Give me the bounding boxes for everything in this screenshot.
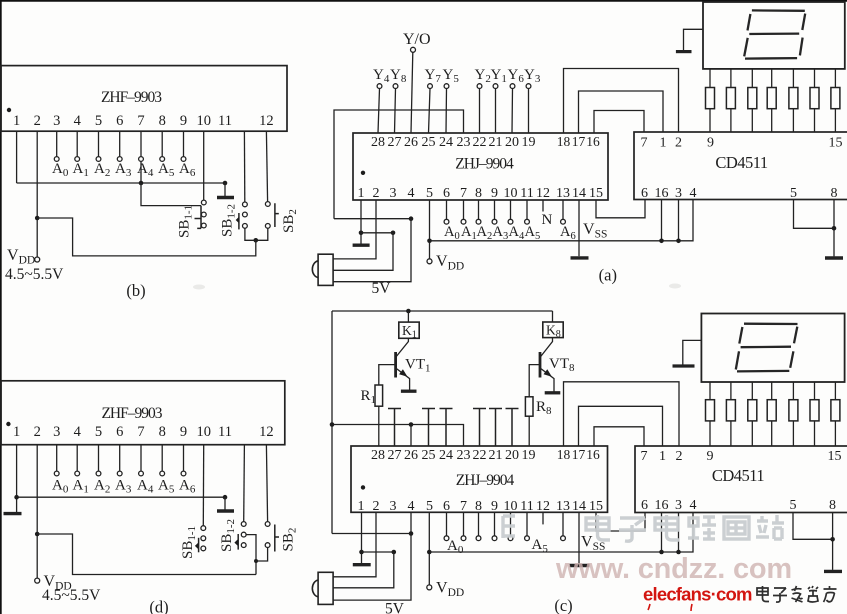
svg-text:5V: 5V: [372, 280, 392, 297]
7-seg digit 8 (c): [736, 324, 798, 372]
svg-text:Y7: Y7: [425, 67, 442, 85]
svg-text:A0: A0: [52, 478, 69, 496]
svg-text:5: 5: [790, 186, 797, 201]
svg-text:ZHJ–9904: ZHJ–9904: [455, 156, 514, 173]
svg-text:5: 5: [426, 499, 433, 514]
svg-text:1: 1: [13, 113, 20, 129]
terminal VDD (c): [427, 585, 432, 590]
svg-text:1: 1: [358, 186, 365, 201]
bus wire horizontal (d): [17, 496, 225, 498]
relay K8 body: [543, 322, 563, 338]
svg-text:16: 16: [655, 498, 669, 513]
svg-text:20: 20: [505, 135, 519, 150]
wire ZHJ pin16 to CD pin7 (c): [594, 427, 644, 446]
page border top: [0, 0, 847, 2]
CD4511 bottom pin labels (c): [641, 498, 836, 513]
svg-text:1: 1: [659, 449, 666, 464]
wire pin3 to IR receiver (c): [333, 552, 394, 588]
wire CD pin8 to ground (a): [833, 200, 835, 257]
svg-text:1: 1: [13, 424, 20, 440]
wires display to resistors (c): [710, 382, 835, 400]
svg-text:13: 13: [556, 499, 570, 514]
svg-text:1: 1: [358, 499, 365, 514]
display ground bar (a): [676, 50, 692, 53]
svg-text:SB1-2: SB1-2: [219, 519, 237, 552]
IC ZHF-9903 (d) body: [1, 381, 285, 445]
VDD rail to CD4511 pin4 (a): [430, 200, 694, 241]
svg-text:4: 4: [74, 424, 82, 440]
IC CD4511 (a) body: [634, 132, 847, 200]
svg-text:8: 8: [475, 186, 482, 201]
wire R8 to pin 19 (c): [528, 416, 530, 446]
svg-text:6: 6: [116, 424, 123, 440]
svg-text:ZHF–9903: ZHF–9903: [101, 89, 162, 106]
svg-text:20: 20: [505, 448, 519, 463]
IC ZHF-9903 (b) body: [1, 66, 287, 132]
bottom pin labels 1-15 (c): [358, 499, 604, 514]
wire pin1 to ground (a): [360, 200, 362, 244]
svg-text:9: 9: [707, 136, 714, 151]
svg-text:R8: R8: [536, 399, 552, 417]
ground bar pin1 (c): [353, 563, 371, 566]
svg-text:ZHF–9903: ZHF–9903: [101, 405, 162, 422]
labels A0-A6 (b): [52, 161, 196, 179]
switch SB1-1 contacts (d): [201, 526, 206, 551]
svg-text:7: 7: [137, 113, 144, 129]
svg-text:8: 8: [829, 498, 836, 513]
svg-text:21: 21: [489, 135, 503, 150]
terminal VDD (a): [427, 259, 432, 264]
wire VT8 base to R8: [529, 365, 540, 397]
svg-text:4: 4: [690, 498, 697, 513]
wire pin12 stub (a): [542, 200, 544, 212]
node K1 tap on rail (c): [406, 309, 411, 314]
wire stub to SB1-2 (d): [243, 445, 246, 522]
wire pin2 to IR receiver (c): [333, 512, 376, 577]
wires Y terminals to pins 28 27 25 24 22 21 20 19: [378, 89, 529, 134]
node CD pin8 (c): [830, 537, 835, 542]
svg-text:VSS: VSS: [583, 221, 607, 241]
wire bus branch to SB1-1 actuator (b): [141, 183, 201, 206]
svg-text:5V: 5V: [385, 601, 405, 614]
svg-text:14: 14: [572, 186, 586, 201]
transistor VT1 emitter arrow: [399, 369, 407, 377]
node pin4 junction (c): [409, 531, 414, 536]
wire rail to K8 (c): [552, 311, 554, 322]
wires pins 6-11,13 to A terminals (c): [447, 512, 564, 536]
svg-text:3: 3: [675, 498, 682, 513]
terminal circles A0-A6 (d): [54, 471, 186, 476]
wire left rail to pin4 (c): [332, 512, 411, 533]
svg-text:18: 18: [557, 447, 571, 462]
svg-text:9: 9: [491, 499, 498, 514]
svg-text:6: 6: [443, 186, 450, 201]
svg-text:7: 7: [641, 136, 648, 151]
svg-text:16: 16: [655, 186, 669, 201]
wire pin3 to IR receiver (a): [333, 233, 393, 270]
svg-text:25: 25: [422, 135, 436, 150]
wire pin2 to IR receiver (a): [333, 200, 376, 259]
wire pin12 to SB2 (b): [266, 131, 267, 201]
svg-text:12: 12: [259, 424, 274, 440]
wire rail to K1 (c): [407, 311, 409, 322]
svg-text:A6: A6: [560, 224, 576, 242]
svg-text:12: 12: [536, 499, 550, 514]
svg-text:21: 21: [489, 448, 503, 463]
svg-text:7: 7: [641, 449, 648, 464]
ground bar CD pin8 (a): [825, 256, 843, 259]
svg-text:2: 2: [373, 186, 380, 201]
wires pins3-9 to A terminals (b): [57, 131, 184, 183]
7-seg display (a) body: [703, 2, 845, 69]
CD4511 bottom pin labels (a): [641, 186, 838, 201]
wire left loop rail to pin 23 (a): [334, 110, 464, 219]
node pin2/VDD junction (b): [35, 216, 40, 221]
wire pin14 to ground (a): [578, 200, 580, 256]
ground bar pin14 (a): [571, 256, 589, 259]
svg-text:25: 25: [422, 448, 436, 463]
svg-text:CD4511: CD4511: [715, 153, 768, 172]
svg-text:5: 5: [95, 113, 102, 129]
node bus/pin11 junction (b): [223, 181, 228, 186]
wire CD pin5 to pin8 (c): [793, 513, 833, 540]
wire pin11 to ground bar (d): [224, 497, 226, 509]
svg-text:Y8: Y8: [390, 67, 407, 85]
top supply rail (c): [332, 310, 553, 312]
svg-text:VSS: VSS: [581, 534, 605, 554]
svg-text:VDD: VDD: [7, 247, 35, 267]
svg-text:17: 17: [572, 134, 586, 149]
svg-text:4: 4: [690, 186, 697, 201]
svg-text:A1: A1: [461, 224, 477, 242]
wire pin26 to rail (c): [410, 425, 412, 447]
wire pin5 to VDD (c): [428, 512, 430, 585]
svg-text:1: 1: [660, 136, 667, 151]
wire CD pin5 to pin8 (a): [794, 200, 835, 229]
7-seg display (c) body: [701, 314, 844, 383]
pin-1 index dot (a): [361, 171, 365, 175]
svg-text:ZHJ–9904: ZHJ–9904: [456, 472, 515, 489]
svg-text:5: 5: [95, 424, 102, 440]
svg-text:2: 2: [373, 499, 380, 514]
svg-text:18: 18: [557, 134, 571, 149]
svg-text:11: 11: [520, 186, 533, 201]
wire CD pin16 to rail (a): [661, 200, 663, 241]
IC CD4511 (c) body: [635, 446, 847, 513]
svg-text:26: 26: [404, 448, 418, 463]
svg-text:A1: A1: [73, 478, 89, 496]
svg-text:(b): (b): [126, 281, 145, 300]
svg-text:VDD: VDD: [436, 253, 464, 273]
svg-text:28: 28: [371, 135, 385, 150]
wire VDD rail (d): [37, 534, 256, 575]
terminal circles A0-A6 (b): [54, 157, 186, 162]
svg-text:A0: A0: [52, 161, 69, 179]
svg-text:N: N: [542, 212, 553, 228]
svg-text:4: 4: [408, 499, 415, 514]
transistor VT8 emitter arrow: [544, 369, 552, 377]
wire pin14 to ground (c): [578, 512, 580, 564]
node pin2/VDD junction (d): [35, 532, 40, 537]
svg-text:Y4: Y4: [373, 67, 390, 85]
svg-text:SB2: SB2: [281, 528, 299, 552]
svg-text:Y2: Y2: [475, 67, 491, 85]
svg-text:3: 3: [390, 186, 397, 201]
wire ZHJ pin17 to CD pin1 (c): [579, 406, 663, 446]
switch SB2 contacts (d): [265, 522, 270, 548]
terminals Y4 Y8 Y7 Y5 Y2 Y1 Y6 Y3: [377, 84, 531, 89]
display ground bar (c): [673, 364, 695, 367]
svg-text:12: 12: [259, 113, 274, 129]
wire K1 to VT1 collector: [396, 338, 408, 356]
svg-text:9: 9: [491, 186, 498, 201]
no-connect caps pins 27 25 24 22 21 20 (c): [388, 409, 519, 447]
svg-text:A4: A4: [509, 224, 525, 242]
transistor VT8 emitter: [541, 369, 554, 392]
pin number labels 1-12 (d): [13, 424, 274, 440]
svg-text:A0: A0: [444, 224, 460, 242]
wires pins 6-11,13 to A terminals (a): [447, 200, 564, 219]
svg-text:23: 23: [457, 135, 471, 150]
logo drip marks: [648, 604, 692, 611]
svg-text:Y/O: Y/O: [403, 31, 431, 48]
wire SB1-2 middle contact to junction (d): [246, 535, 256, 575]
svg-text:9: 9: [707, 449, 714, 464]
display ground wire (a): [684, 29, 704, 51]
svg-text:2: 2: [675, 136, 682, 151]
terminal Y/O: [411, 47, 416, 52]
wire pin1-pin3 jumper (a): [361, 232, 393, 234]
svg-text:7: 7: [137, 424, 144, 440]
svg-text:16: 16: [586, 134, 600, 149]
switch SB2 actuator (d): [275, 525, 279, 552]
svg-text:8: 8: [159, 113, 166, 129]
node SB junction (b): [254, 238, 259, 243]
svg-text:3: 3: [390, 499, 397, 514]
node CD pin8 (a): [832, 226, 837, 231]
svg-text:Y1: Y1: [491, 67, 507, 85]
node CD pin16 (c): [659, 550, 664, 555]
wires resistors to CD4511 (c): [710, 421, 835, 446]
page border left: [0, 0, 2, 614]
node pin4 junction (a): [409, 216, 414, 221]
wire pin12 to SB2 (d): [266, 445, 267, 522]
svg-text:7: 7: [460, 186, 467, 201]
svg-text:15: 15: [829, 136, 843, 151]
ground bar CD pin8 (c): [824, 570, 842, 573]
node pin1 junction (a): [359, 231, 364, 236]
svg-text:K1: K1: [402, 323, 417, 341]
pin-1 index dot (d): [6, 422, 10, 426]
labels A0-A6 (d): [52, 478, 196, 496]
svg-text:19: 19: [522, 448, 536, 463]
svg-text:9: 9: [180, 113, 187, 129]
svg-text:11: 11: [520, 499, 533, 514]
display ground wire (c): [683, 340, 702, 364]
svg-text:24: 24: [439, 448, 453, 463]
wire CD pin3 to rail (a): [678, 200, 680, 241]
node SB junction (d): [254, 559, 258, 563]
svg-text:6: 6: [443, 499, 450, 514]
svg-text:22: 22: [473, 448, 487, 463]
svg-text:10: 10: [196, 424, 211, 440]
switch SB2 actuator (b): [275, 203, 279, 227]
relay K1 body: [399, 322, 419, 338]
svg-text:SB2: SB2: [281, 209, 299, 233]
IR receiver module (c): [318, 572, 333, 604]
switch SB1-2 actuator (d): [237, 534, 239, 550]
node pin3 junction (c): [392, 550, 397, 555]
left vertical rail (c): [331, 311, 333, 534]
resistor R1: [375, 385, 383, 406]
scan smudge: [193, 285, 205, 290]
wire SB2 bottom to junction (b): [256, 228, 268, 240]
svg-text:24: 24: [439, 135, 453, 150]
svg-text:A5: A5: [525, 224, 541, 242]
svg-text:3: 3: [675, 186, 682, 201]
ground bar pin14 (c): [570, 564, 590, 567]
ground bar under pin11 (d): [217, 509, 234, 512]
wire rail to pin 4 (a): [334, 218, 411, 220]
svg-text:Y3: Y3: [524, 67, 541, 85]
wire ZHJ pin17 to CD pin1 (a): [579, 91, 664, 133]
node CD pin3 (a): [676, 239, 681, 244]
switch SB2 contacts (b): [265, 202, 270, 229]
wire stub to SB1-2 (b): [243, 131, 245, 202]
svg-text:13: 13: [556, 186, 570, 201]
svg-text:9: 9: [180, 424, 187, 440]
svg-text:SB1-2: SB1-2: [220, 204, 238, 237]
svg-text:A0: A0: [447, 538, 464, 556]
svg-text:A6: A6: [179, 161, 196, 179]
svg-text:11: 11: [218, 424, 232, 440]
transistor VT1 base bar: [394, 352, 397, 378]
wire SB2 bottom to junction (d): [256, 548, 268, 562]
svg-text:A3: A3: [115, 478, 132, 496]
7-seg digit 8 (a): [744, 10, 805, 58]
bus wire horizontal (b): [17, 182, 225, 184]
svg-text:2: 2: [34, 424, 41, 440]
svg-text:SB1-1: SB1-1: [180, 526, 198, 559]
svg-text:K8: K8: [546, 323, 561, 341]
svg-text:2: 2: [676, 449, 683, 464]
svg-text:23: 23: [457, 448, 471, 463]
wire pin15 to CD pin6 (c): [596, 512, 645, 531]
svg-text:8: 8: [831, 186, 838, 201]
wires resistors to CD4511 (a): [710, 109, 835, 132]
svg-text:(d): (d): [149, 598, 168, 614]
wire pin1-pin3 jumper (c): [362, 551, 394, 553]
wire pin1 to ground (d): [16, 497, 18, 512]
wire SB junction to VDD rail (b): [37, 218, 256, 256]
switch SB1-1 contacts (b): [201, 200, 206, 228]
labels A0-A5, N, A6 (a): [444, 212, 576, 242]
wires pins3-9 to A terminals (d): [57, 445, 184, 471]
svg-text:4: 4: [74, 113, 82, 129]
terminal VDD (d): [35, 578, 40, 583]
CD4511 top pin labels (c): [641, 449, 842, 464]
wire pin4 to IR receiver (c): [333, 534, 411, 601]
wire ZHJ pin18 to CD pin2 (c): [564, 382, 680, 446]
switch SB1-2 contacts (b): [243, 202, 248, 228]
svg-text:6: 6: [641, 186, 648, 201]
wire pin10 to SB1-1 (d): [202, 445, 204, 526]
svg-text:22: 22: [473, 135, 487, 150]
node pin26 junction (c): [409, 422, 414, 427]
wire pin15 to CD4511 pin6 (a): [596, 200, 645, 218]
svg-text:Y6: Y6: [508, 67, 525, 85]
svg-text:A2: A2: [94, 161, 110, 179]
svg-text:A4: A4: [137, 478, 154, 496]
svg-text:8: 8: [475, 499, 482, 514]
svg-text:11: 11: [218, 113, 232, 129]
resistors R row (c): [706, 400, 840, 421]
labels A0 A5 (c): [447, 537, 548, 556]
svg-text:4.5~5.5V: 4.5~5.5V: [42, 587, 101, 604]
IC ZHJ-9904 (c) body: [351, 446, 608, 512]
svg-text:6: 6: [641, 498, 648, 513]
wire VT1 base to R1: [379, 365, 396, 385]
node bus/A4 junction (b): [139, 181, 144, 186]
svg-text:27: 27: [388, 448, 402, 463]
svg-text:6: 6: [116, 113, 123, 129]
resistors R row (a): [706, 88, 840, 109]
svg-text:3: 3: [53, 113, 60, 129]
svg-text:R1: R1: [361, 388, 377, 406]
svg-text:3: 3: [53, 424, 60, 440]
svg-text:15: 15: [828, 449, 842, 464]
wire CD pin16 to rail (c): [661, 513, 663, 553]
svg-text:28: 28: [371, 448, 385, 463]
svg-text:27: 27: [388, 135, 402, 150]
svg-text:14: 14: [572, 499, 586, 514]
ground bar under pin1 (d): [4, 512, 22, 515]
wire pin4 to IR receiver (a): [333, 219, 411, 282]
IC ZHJ-9904 (a) body: [353, 133, 608, 200]
svg-text:19: 19: [522, 135, 536, 150]
svg-text:5: 5: [790, 498, 797, 513]
top pin labels 28-16 (a): [371, 134, 600, 150]
svg-text:12: 12: [536, 186, 550, 201]
wire pin10 to SB1-1 (b): [203, 131, 205, 200]
ground bar VT1 emitter: [401, 390, 417, 393]
svg-text:Y5: Y5: [443, 67, 460, 85]
wire pin2 down to VDD terminal (b): [36, 131, 38, 257]
wire pin12 stub (c): [542, 512, 544, 524]
wire pin1 down to bus (d): [16, 445, 18, 498]
svg-text:www. cndzz. com: www. cndzz. com: [555, 553, 792, 585]
switch SB1-1 actuator bar (b): [195, 206, 202, 229]
node pin5/VDD junction (c): [427, 550, 432, 555]
svg-text:A5: A5: [158, 161, 175, 179]
wire pin5 to VDD (a): [429, 200, 431, 259]
svg-text:8: 8: [159, 424, 166, 440]
wire pin11 to ground bar (b): [224, 183, 226, 196]
bottom pin labels 1-15 (a): [358, 186, 604, 201]
terminal VDD (b): [35, 257, 40, 262]
wire ZHJ pin18 to CD pin2 (a): [564, 69, 679, 134]
svg-text:10: 10: [504, 499, 518, 514]
watermark line1 电子电路图站 (drawn glyphs): [503, 515, 784, 541]
svg-text:A2: A2: [477, 224, 493, 242]
wire CD pin3 to rail (c): [678, 513, 680, 553]
svg-text:5: 5: [426, 186, 433, 201]
transistor VT8 base bar: [539, 352, 542, 378]
node left rail junction (c): [330, 422, 335, 427]
svg-text:A6: A6: [179, 478, 196, 496]
svg-text:10: 10: [504, 186, 518, 201]
ground bar pin1 (a): [353, 243, 370, 246]
